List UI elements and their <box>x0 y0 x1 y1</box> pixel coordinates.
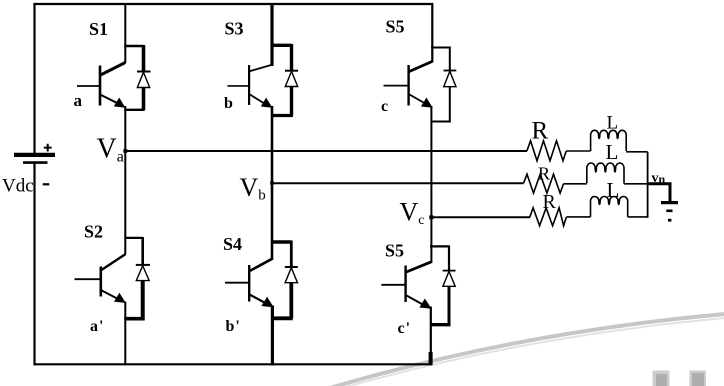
diode D2 (antiparallel with S2) <box>124 237 150 319</box>
svg-text:c: c <box>381 98 388 115</box>
watermark gray block 2 <box>690 371 707 386</box>
svg-text:b': b' <box>226 318 240 335</box>
svg-text:R: R <box>532 118 549 145</box>
transistor S3 <box>227 65 272 107</box>
ground symbol <box>661 203 678 222</box>
diode D5 (antiparallel with S5) <box>431 47 456 122</box>
resistor R (phase C) <box>530 208 567 226</box>
diode D4 (antiparallel with S4) <box>271 241 298 319</box>
svg-text:S4: S4 <box>223 234 242 254</box>
wire: L to neutral bus (phase C) <box>628 216 648 218</box>
svg-text:S1: S1 <box>89 19 108 39</box>
wire: left DC rail lower (battery - to bottom rail) <box>33 164 35 366</box>
transistor S5 <box>384 62 433 108</box>
svg-text:c': c' <box>398 320 411 337</box>
transistor S4 <box>225 258 273 306</box>
wire: leg A lower (S2 emitter to bottom rail) <box>124 302 126 365</box>
inductor L (phase B) <box>587 163 624 184</box>
transistor S6 (labelled S5) <box>381 262 431 308</box>
resistor R (phase A) <box>527 141 566 161</box>
node: leg C bottom junction blob <box>429 352 433 364</box>
wire: L to neutral bus (phase B) <box>624 183 648 185</box>
wire: leg A upper (rail to S1 collector) <box>124 4 126 63</box>
node Vb junction <box>270 181 274 185</box>
wire: bottom DC rail <box>34 363 433 365</box>
diode D1 (antiparallel with S1) <box>124 45 150 110</box>
wire: left DC rail upper (to battery +) <box>33 3 35 153</box>
wire: leg B lower (S4 emitter to bottom rail), thick <box>271 306 274 366</box>
transistor S2 <box>75 254 126 302</box>
node Va junction <box>123 149 127 153</box>
node Vc junction <box>429 215 433 219</box>
battery Vdc <box>14 144 55 185</box>
inductor L (phase A) <box>591 130 627 151</box>
watermark swoosh curve <box>330 314 724 386</box>
wire: phase A output line Va to resistor <box>125 150 527 152</box>
svg-text:a: a <box>74 91 83 110</box>
wire: phase C output line Vc to resistor <box>431 216 530 218</box>
transistor S1 <box>77 63 125 108</box>
svg-text:Vdc: Vdc <box>2 176 34 197</box>
svg-text:S3: S3 <box>225 19 244 39</box>
diode D6 (antiparallel with S6) <box>430 245 456 324</box>
svg-text:L: L <box>606 140 619 164</box>
wire: leg A middle (S1 emitter to node Va and down to S2) <box>124 106 126 255</box>
wire: neutral bus vertical <box>647 152 649 218</box>
watermark gray block 1 <box>653 371 670 386</box>
svg-text:b: b <box>224 95 233 112</box>
wire: R to L (phase A) <box>566 150 590 152</box>
svg-text:S5: S5 <box>386 17 405 37</box>
wire: top DC rail <box>34 3 433 5</box>
svg-text:a': a' <box>90 318 103 335</box>
wire: leg C middle (S5 emitter to node Vc and down to S5') <box>430 106 432 263</box>
wire: leg B middle (S3 emitter to node Vb and down to S4) <box>271 106 274 260</box>
diode D3 (antiparallel with S3) <box>271 44 298 116</box>
wire: R to L (phase B) <box>564 183 587 185</box>
svg-text:S2: S2 <box>84 222 103 242</box>
wire: node vn tap to ground <box>647 184 670 202</box>
wire: L to neutral bus (phase A) <box>626 151 647 153</box>
wire: R to L (phase C) <box>566 216 590 218</box>
wire: leg B upper (rail to S3 collector), thick <box>270 4 273 66</box>
wire: leg C upper (rail to S5 collector) <box>431 3 433 63</box>
resistor R (phase B) <box>524 174 564 193</box>
svg-text:S5: S5 <box>385 241 404 261</box>
inductor L (phase C) <box>591 196 628 216</box>
wire: leg C lower (S6 emitter to bottom rail) <box>430 307 432 365</box>
wire: phase B output line Vb to resistor <box>272 182 524 184</box>
